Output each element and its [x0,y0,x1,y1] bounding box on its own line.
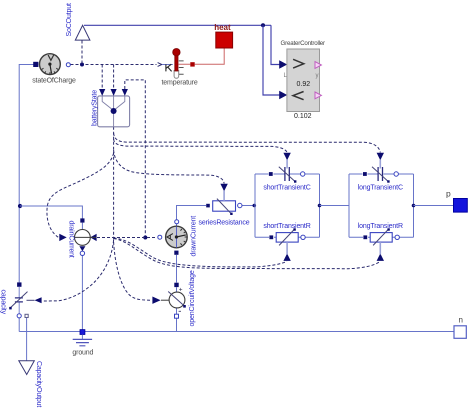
svg-text:p: p [446,189,451,199]
node long pair out junction [412,204,416,208]
arrow into drainCurrent left [59,234,66,241]
arrow into GreaterController input2 [279,91,287,99]
wire to GreaterController input1 [271,25,280,64]
source openCircuitVoltage [161,270,196,326]
svg-text:CapacityOutput: CapacityOutput [35,361,42,407]
wire long pair right bracket [413,174,415,237]
wire bottom rail [19,331,454,333]
wire short pair left bracket [254,174,256,237]
node short pair out junction [318,204,322,208]
svg-text:GreaterController: GreaterController [281,40,326,47]
svg-text:0.92: 0.92 [297,81,311,88]
wire dashed drainCurrent to drawnCurrent [97,237,156,239]
wire short pair to long pair [320,205,350,207]
wire dashed into batteryState input3 [125,80,146,236]
svg-text:heat: heat [214,23,231,32]
wire dashed batteryState out to capacity [42,240,114,301]
svg-text:+: + [179,286,183,293]
wire longTransientC branch leads [349,173,414,175]
wire openCircuitVoltage bottom to rail [176,318,178,332]
arrow into openCircuitVoltage [152,297,160,304]
wire dashed into batteryState input2 [113,65,115,90]
svg-text:longTransientR: longTransientR [358,223,403,230]
svg-text:batteryState: batteryState [91,90,98,126]
sensor temperature [162,49,198,87]
arrow into seriesResistance [220,184,227,191]
wire dashed into batteryState input1 [101,65,103,90]
capacitor longTransientC [358,160,403,192]
pin n connector [454,316,466,339]
wire dashed batteryState out to longTransientC [113,127,115,240]
wire capacity bottom to rail [18,318,20,332]
wire seriesResistance out to short pair [242,205,255,207]
svg-text:0.102: 0.102 [294,113,312,120]
svg-text:y: y [316,73,319,79]
capacitor capacity [0,282,35,318]
svg-text:ground: ground [72,349,93,356]
wire dashed batteryState out to shortTransientC [114,139,288,153]
svg-text:shortTransientR: shortTransientR [263,223,310,230]
red heat wire [178,48,224,64]
source drainCurrent [68,218,97,257]
node left rail junction [18,204,22,208]
pin p connector [446,189,467,213]
wire dashed batteryState out to seriesResistance [114,150,225,184]
wire drainCurrent bottom to ground rail [81,255,83,332]
ground [72,330,93,357]
output connector SoCOutput [66,3,90,40]
arrow into capacity [35,297,42,303]
arrow into shortTransientR [283,254,290,261]
arrow into GreaterController input1 [279,60,287,68]
wire dashed batteryState out to shortTransientR [114,238,287,267]
heat port block heat [214,23,232,48]
output connector CapacityOutput [19,361,42,408]
arrow open temperature signal [158,63,162,67]
wire SoCOutput triangle to junction dashed [81,41,83,65]
wire drawnCurrent top to seriesResistance [177,206,207,228]
resistor seriesResistance [199,191,250,227]
arrow into drainCurrent right [90,234,96,241]
arrow into shortTransientC [283,153,290,160]
wire capacity output tap to CapacityOutput triangle [26,318,28,361]
wire dashed batteryState out to openCircuitVoltage [114,242,152,300]
svg-text:seriesResistance: seriesResistance [199,220,250,227]
node SoC dashed junction [80,63,84,67]
wire signal SoC dashed main line [71,64,157,66]
svg-text:shortTransientC: shortTransientC [263,185,310,192]
arrow into longTransientC [377,153,384,160]
wire left rail from stateOfCharge [19,65,33,283]
wire shortTransientR branch leads [255,236,320,238]
sensor drawnCurrent [158,216,198,257]
wire shortTransientC branch leads [255,173,320,175]
svg-text:temperature: temperature [162,80,198,87]
wire SoCOutput to GreaterController top line [84,24,271,26]
block batteryState [91,89,129,127]
wire long pair left bracket [348,174,350,237]
svg-text:stateOfCharge: stateOfCharge [32,77,76,84]
svg-text:capacity: capacity [0,290,7,315]
node red junction [190,62,194,66]
wire to GreaterController input2 [263,25,280,95]
svg-text:drainCurrent: drainCurrent [68,221,75,258]
arrow into longTransientR [377,254,384,261]
sensor stateOfCharge [32,54,76,85]
node top-line junction [261,23,265,27]
wire junction to drainCurrent top [20,206,82,230]
capacitor shortTransientC [263,160,310,192]
wire long pair to p connector [414,205,455,207]
resistor shortTransientR [263,223,310,254]
wire short pair right bracket [319,174,321,237]
resistor longTransientR [358,223,403,254]
wire dashed batteryState out to drainCurrent [47,153,114,237]
wire dashed batteryState out to longTransientR [114,239,381,269]
svg-text:SoCOutput: SoCOutput [66,3,73,36]
block GreaterController [281,40,326,120]
wire longTransientR branch leads [349,236,414,238]
svg-text:n: n [459,316,463,325]
node seriesResistance out junction [253,204,257,208]
svg-text:longTransientC: longTransientC [358,185,403,192]
node dashed cross junction [143,236,147,240]
svg-text:drawnCurrent: drawnCurrent [191,216,198,257]
wire drawnCurrent bottom to openCircuitVoltage [176,255,178,314]
svg-text:openCircuitVoltage: openCircuitVoltage [189,270,196,326]
